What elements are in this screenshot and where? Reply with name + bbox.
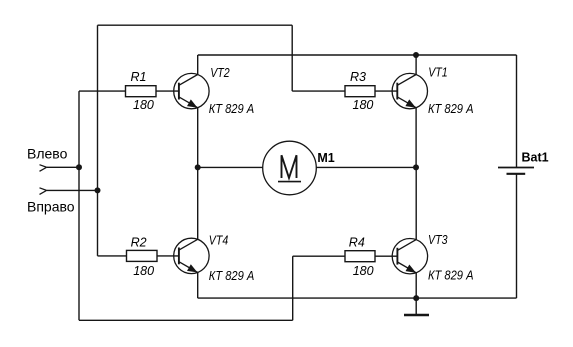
wire VT3 collector vertical	[415, 167, 417, 239]
svg-text:180: 180	[353, 98, 374, 112]
wire vertical x=292.7 bottom to R4 row	[292, 256, 294, 320]
transistor VT3	[392, 239, 427, 274]
svg-text:M1: M1	[317, 151, 334, 165]
svg-text:VT2: VT2	[210, 66, 230, 80]
motor M1	[263, 141, 317, 195]
wire motor right segment	[316, 166, 416, 168]
junction node VT1 collector	[413, 52, 419, 58]
svg-text:R3: R3	[350, 70, 366, 84]
junction node ground	[413, 295, 419, 301]
wire R1 left segment	[79, 90, 126, 92]
wire VT3 emitter down	[415, 273, 417, 298]
junction node motor right	[413, 164, 419, 170]
svg-text:180: 180	[353, 264, 374, 278]
svg-text:VT1: VT1	[428, 65, 448, 79]
wire input Влево	[47, 166, 79, 168]
wire VT2 collector vertical	[197, 55, 199, 75]
svg-text:R4: R4	[349, 236, 365, 250]
wire bottom y=320	[79, 319, 293, 321]
svg-text:КТ 829 А: КТ 829 А	[209, 102, 255, 116]
transistor VT2	[174, 73, 209, 108]
svg-text:180: 180	[133, 98, 154, 112]
wire R3 to VT1 base	[375, 90, 397, 92]
wire R2 to VT4 base	[157, 255, 179, 257]
wire R3 base row left segment	[292, 90, 345, 92]
transistor VT1	[392, 73, 427, 108]
svg-text:VT3: VT3	[428, 233, 448, 247]
svg-text:КТ 829 А: КТ 829 А	[209, 269, 255, 283]
wire motor left segment	[198, 166, 263, 168]
resistor R4	[345, 236, 375, 278]
wire battery top vertical	[516, 55, 518, 168]
junction node motor left	[195, 164, 201, 170]
svg-text:VT4: VT4	[209, 233, 229, 247]
wire ground rail y=298	[198, 297, 517, 299]
wire collector rail y=55	[198, 54, 517, 56]
wire VT4 emitter down	[197, 272, 199, 298]
resistor R1	[126, 70, 157, 112]
svg-text:КТ 829 А: КТ 829 А	[428, 268, 474, 282]
wire VT1 emitter down to motor node	[415, 108, 417, 168]
battery Bat1	[498, 168, 534, 174]
svg-text:Bat1: Bat1	[522, 151, 549, 165]
wire rail B vertical (Вправо net)	[97, 25, 99, 256]
svg-text:180: 180	[133, 264, 154, 278]
input terminal arrow Вправо	[40, 188, 47, 195]
wire R4 to VT3 base	[375, 255, 397, 257]
svg-text:КТ 829 А: КТ 829 А	[428, 102, 474, 116]
resistor R3	[345, 70, 375, 112]
wire R4 left segment	[293, 255, 345, 257]
wire input Вправо	[47, 189, 98, 191]
wire VT1 collector vertical	[415, 55, 417, 75]
svg-text:R1: R1	[131, 70, 147, 84]
wire vertical x=292 from top wire down to R3 row	[291, 25, 293, 91]
junction node Вправо rail	[95, 187, 101, 193]
wire R1 to VT2 base	[156, 90, 179, 92]
wire rail A vertical (Влево net)	[78, 91, 80, 320]
svg-text:Вправо: Вправо	[27, 198, 75, 214]
wire battery bottom vertical	[516, 174, 518, 298]
ground	[404, 298, 429, 315]
input terminal arrow Влево	[40, 165, 47, 172]
transistor VT4	[174, 238, 209, 273]
junction node Влево rail	[76, 164, 82, 170]
svg-text:Влево: Влево	[27, 145, 68, 161]
wire top left horizontal (Вправо net to VT1 base branch)	[98, 24, 293, 26]
wire VT4 collector vertical	[197, 167, 199, 239]
wire rail B to R2	[98, 255, 127, 257]
wire VT2 emitter down to motor node	[197, 108, 199, 168]
resistor R2	[127, 235, 158, 278]
svg-text:R2: R2	[131, 235, 147, 249]
